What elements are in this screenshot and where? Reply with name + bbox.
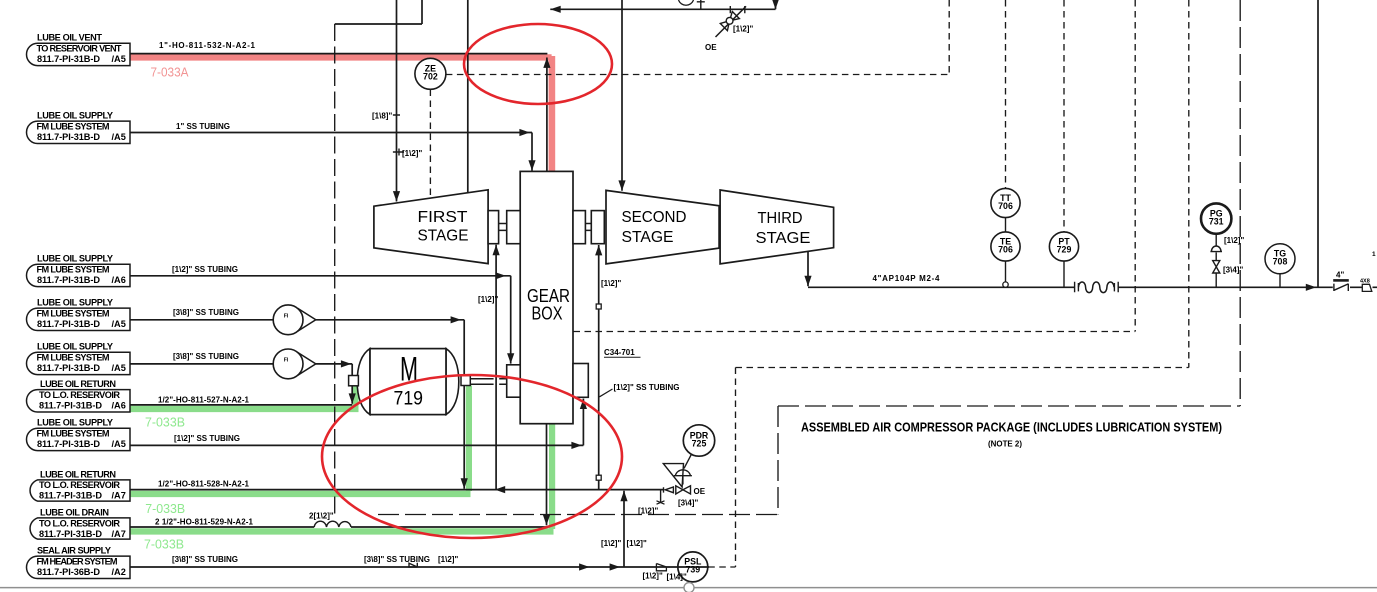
- svg-text:4"AP104P M2-4: 4"AP104P M2-4: [873, 274, 941, 283]
- svg-text:[1\2]": [1\2]": [402, 149, 422, 158]
- svg-text:[3\8]" SS TUBING: [3\8]" SS TUBING: [173, 308, 239, 317]
- svg-text:7-033B: 7-033B: [145, 501, 185, 516]
- svg-text:LUBE OIL RETURN: LUBE OIL RETURN: [40, 379, 116, 389]
- svg-text:TO L.O. RESERVOIR: TO L.O. RESERVOIR: [39, 390, 120, 400]
- svg-text:[1\4]": [1\4]": [667, 573, 687, 582]
- svg-text:FM LUBE SYSTEM: FM LUBE SYSTEM: [37, 122, 110, 132]
- svg-text:/A5: /A5: [112, 54, 126, 64]
- svg-text:[3\4]": [3\4]": [1223, 266, 1243, 275]
- svg-text:FI: FI: [284, 314, 289, 320]
- svg-text:811.7-PI-31B-D: 811.7-PI-31B-D: [39, 401, 102, 411]
- svg-text:811.7-PI-36B-D: 811.7-PI-36B-D: [37, 567, 100, 577]
- svg-text:811.7-PI-31B-D: 811.7-PI-31B-D: [37, 275, 100, 285]
- svg-text:1"-HO-811-532-N-A2-1: 1"-HO-811-532-N-A2-1: [159, 41, 256, 50]
- svg-text:/A5: /A5: [112, 439, 126, 449]
- svg-text:TO L.O. RESERVOIR: TO L.O. RESERVOIR: [39, 480, 120, 490]
- svg-text:BOX: BOX: [532, 303, 563, 324]
- svg-text:[1\2]": [1\2]": [478, 295, 498, 304]
- svg-text:[1\2]": [1\2]": [627, 539, 647, 548]
- svg-text:TO L.O. RESERVOIR: TO L.O. RESERVOIR: [39, 518, 120, 528]
- svg-text:STAGE: STAGE: [418, 227, 469, 244]
- svg-text:1/2"-HO-811-527-N-A2-1: 1/2"-HO-811-527-N-A2-1: [158, 396, 250, 405]
- svg-text:[1\2]": [1\2]": [601, 279, 621, 288]
- svg-text:811.7-PI-31B-D: 811.7-PI-31B-D: [39, 491, 102, 501]
- svg-text:/A7: /A7: [112, 529, 126, 539]
- svg-text:LUBE OIL VENT: LUBE OIL VENT: [37, 33, 102, 43]
- svg-text:1" SS TUBING: 1" SS TUBING: [176, 122, 230, 131]
- svg-text:1: 1: [1372, 251, 1376, 258]
- svg-text:STAGE: STAGE: [756, 230, 811, 247]
- svg-text:4": 4": [1336, 271, 1344, 280]
- svg-text:7-033B: 7-033B: [144, 536, 184, 551]
- svg-text:[1\2]" SS TUBING: [1\2]" SS TUBING: [172, 265, 238, 274]
- svg-text:[1\8]": [1\8]": [372, 112, 392, 121]
- svg-text:1/2"-HO-811-528-N-A2-1: 1/2"-HO-811-528-N-A2-1: [158, 480, 250, 489]
- svg-text:/A2: /A2: [112, 567, 126, 577]
- svg-text:FI: FI: [284, 358, 289, 364]
- svg-text:7-033B: 7-033B: [145, 414, 185, 429]
- svg-text:/A5: /A5: [112, 319, 126, 329]
- svg-text:FM LUBE SYSTEM: FM LUBE SYSTEM: [37, 309, 110, 319]
- svg-text:LUBE OIL DRAIN: LUBE OIL DRAIN: [40, 507, 109, 517]
- svg-text:[1\2]" SS TUBING: [1\2]" SS TUBING: [614, 383, 680, 392]
- svg-text:LUBE OIL SUPPLY: LUBE OIL SUPPLY: [37, 342, 113, 352]
- svg-text:811.7-PI-31B-D: 811.7-PI-31B-D: [37, 319, 100, 329]
- svg-text:731: 731: [1209, 216, 1224, 226]
- svg-text:TO RESERVOIR VENT: TO RESERVOIR VENT: [37, 44, 122, 54]
- svg-text:LUBE OIL SUPPLY: LUBE OIL SUPPLY: [37, 298, 113, 308]
- svg-text:[3\8]" SS TUBING: [3\8]" SS TUBING: [172, 555, 238, 564]
- svg-text:811.7-PI-31B-D: 811.7-PI-31B-D: [37, 54, 100, 64]
- svg-text:[3\8]" SS TUBING: [3\8]" SS TUBING: [364, 555, 430, 564]
- svg-text:706: 706: [998, 244, 1013, 254]
- svg-text:FM LUBE SYSTEM: FM LUBE SYSTEM: [37, 429, 110, 439]
- svg-text:[1\2]": [1\2]": [638, 507, 658, 516]
- svg-text:/A7: /A7: [112, 491, 126, 501]
- svg-text:C34-701: C34-701: [604, 348, 635, 357]
- svg-text:/A5: /A5: [112, 132, 126, 142]
- svg-text:725: 725: [692, 438, 707, 448]
- svg-text:811.7-PI-31B-D: 811.7-PI-31B-D: [37, 439, 100, 449]
- svg-text:LUBE OIL RETURN: LUBE OIL RETURN: [40, 469, 116, 479]
- svg-text:811.7-PI-31B-D: 811.7-PI-31B-D: [37, 363, 100, 373]
- svg-text:OE: OE: [694, 487, 706, 496]
- svg-text:2 1/2"-HO-811-529-N-A2-1: 2 1/2"-HO-811-529-N-A2-1: [155, 518, 254, 527]
- svg-text:706: 706: [998, 201, 1013, 211]
- svg-text:729: 729: [1057, 244, 1072, 254]
- svg-text:/A6: /A6: [112, 401, 126, 411]
- svg-text:SECOND: SECOND: [622, 209, 687, 226]
- svg-text:(NOTE 2): (NOTE 2): [988, 440, 1022, 449]
- svg-text:[1\2]": [1\2]": [601, 539, 621, 548]
- svg-text:[1\2]": [1\2]": [438, 555, 458, 564]
- svg-text:LUBE OIL SUPPLY: LUBE OIL SUPPLY: [37, 254, 113, 264]
- svg-text:[1\2]": [1\2]": [733, 25, 753, 34]
- svg-text:708: 708: [1273, 257, 1288, 267]
- svg-text:811.7-PI-31B-D: 811.7-PI-31B-D: [39, 529, 102, 539]
- svg-text:[1\2]": [1\2]": [1224, 236, 1244, 245]
- svg-text:SEAL AIR SUPPLY: SEAL AIR SUPPLY: [37, 546, 111, 556]
- svg-text:ASSEMBLED AIR COMPRESSOR PACKA: ASSEMBLED AIR COMPRESSOR PACKAGE (INCLUD…: [801, 420, 1222, 434]
- svg-text:739: 739: [685, 565, 700, 575]
- svg-text:[1\2]" SS TUBING: [1\2]" SS TUBING: [174, 434, 240, 443]
- svg-text:LUBE OIL SUPPLY: LUBE OIL SUPPLY: [37, 111, 113, 121]
- svg-text:STAGE: STAGE: [622, 229, 674, 246]
- svg-text:OE: OE: [705, 43, 717, 52]
- svg-text:FIRST: FIRST: [418, 209, 468, 226]
- svg-text:/A5: /A5: [112, 363, 126, 373]
- svg-text:719: 719: [394, 388, 424, 409]
- svg-text:THIRD: THIRD: [758, 210, 803, 227]
- svg-text:LUBE OIL SUPPLY: LUBE OIL SUPPLY: [37, 418, 113, 428]
- svg-text:4X8: 4X8: [1360, 279, 1370, 285]
- svg-text:811.7-PI-31B-D: 811.7-PI-31B-D: [37, 132, 100, 142]
- svg-text:FM LUBE SYSTEM: FM LUBE SYSTEM: [37, 353, 110, 363]
- svg-text:[1\2]": [1\2]": [643, 572, 663, 581]
- svg-text:[3\8]" SS TUBING: [3\8]" SS TUBING: [173, 352, 239, 361]
- svg-text:702: 702: [423, 72, 438, 82]
- svg-text:/A6: /A6: [112, 275, 126, 285]
- svg-text:FM HEADER SYSTEM: FM HEADER SYSTEM: [37, 557, 118, 567]
- svg-text:FM LUBE SYSTEM: FM LUBE SYSTEM: [37, 265, 110, 275]
- svg-text:2[1\2]": 2[1\2]": [309, 512, 334, 521]
- svg-text:[3\4]": [3\4]": [678, 499, 698, 508]
- svg-text:7-033A: 7-033A: [151, 64, 189, 79]
